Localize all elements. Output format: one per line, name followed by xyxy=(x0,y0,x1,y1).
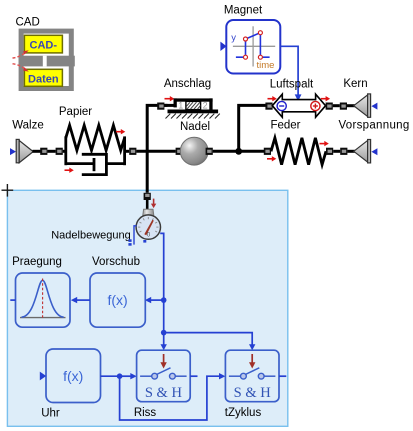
trigger arrow xyxy=(163,354,165,364)
curve points xyxy=(244,31,263,60)
connector Feder left port xyxy=(264,148,271,155)
red arrow Feder bottom left xyxy=(267,156,276,161)
bell curve xyxy=(22,280,64,317)
Uhr f(x) block xyxy=(40,349,101,403)
svg-text:y: y xyxy=(231,33,236,44)
sensor unconnected ports xyxy=(128,239,146,245)
damper branch xyxy=(66,162,94,165)
Walze fixed support xyxy=(10,139,41,162)
sensor dial xyxy=(136,215,160,239)
connector Vorspannung port xyxy=(340,148,347,155)
svg-text:f(x): f(x) xyxy=(107,292,127,308)
svg-text:Magnet: Magnet xyxy=(224,5,263,17)
red arrow at sensor rod xyxy=(151,199,156,209)
svg-text:Anschlag: Anschlag xyxy=(164,78,211,90)
svg-text:CAD-: CAD- xyxy=(30,40,58,52)
right bar xyxy=(123,136,126,165)
svg-text:Vorschub: Vorschub xyxy=(92,256,140,268)
sensor rod xyxy=(146,200,149,210)
wire junction under Riss to tZyklus input xyxy=(120,373,226,420)
wire junction to Riss top xyxy=(161,333,167,351)
connector Luftspalt left port xyxy=(265,103,272,110)
Kern fixed support xyxy=(347,94,377,117)
svg-text:S & H: S & H xyxy=(234,385,272,401)
wire junction to Riss input xyxy=(120,373,137,379)
wire junction to Vorschub xyxy=(145,297,164,303)
Magnet block U1 xyxy=(220,20,280,74)
junction at S&H branch xyxy=(161,330,167,336)
CAD red dashed arrow 1 xyxy=(13,50,29,58)
input port arrow xyxy=(40,372,46,381)
Nadel mass sphere xyxy=(180,137,208,165)
svg-text:2: 2 xyxy=(203,101,208,111)
connector Papier right port xyxy=(129,148,136,155)
svg-text:CAD: CAD xyxy=(16,17,40,29)
connector Anschlag port xyxy=(157,103,164,110)
wire Magnet output to Luftspalt xyxy=(280,46,301,101)
Papier spring-damper xyxy=(63,125,129,174)
svg-text:f(x): f(x) xyxy=(63,368,83,384)
svg-text:Feder: Feder xyxy=(270,120,300,132)
red arrow at Anschlag xyxy=(165,96,175,101)
signal curve xyxy=(236,33,270,58)
Vorspannung fixed support xyxy=(347,140,377,163)
spring branch xyxy=(66,125,125,150)
Riss output stub xyxy=(190,375,197,377)
tZyklus output stub xyxy=(279,375,286,377)
tZyklus sample&hold block xyxy=(225,350,279,402)
red arrow Feder top right xyxy=(320,141,329,146)
svg-text:Daten: Daten xyxy=(28,73,59,85)
wire Nadel to Feder through junction xyxy=(213,150,264,153)
needle xyxy=(144,220,154,235)
branch wire from main line up to Luftspalt xyxy=(239,105,266,151)
sensor left output wire xyxy=(134,226,137,245)
Praegung curve block xyxy=(10,273,70,327)
trigger arrow xyxy=(251,354,253,364)
connector Luftspalt right port xyxy=(326,103,333,110)
svg-text:Nadel: Nadel xyxy=(180,121,210,133)
red arrow Papier bottom left xyxy=(65,168,74,173)
svg-text:Kern: Kern xyxy=(343,78,367,90)
center dashed line xyxy=(42,279,44,318)
compound panel (light blue region) xyxy=(7,190,287,426)
Anschlag end-stop symbol xyxy=(164,98,219,118)
svg-text:S & H: S & H xyxy=(145,385,183,401)
wire Walze to Papier xyxy=(47,150,55,153)
left bar xyxy=(64,136,67,165)
plot axes xyxy=(252,26,254,66)
CAD icon frame xyxy=(19,29,75,91)
svg-text:Vorspannung: Vorspannung xyxy=(338,120,409,132)
wire Papier to Nadel xyxy=(136,150,175,153)
switch xyxy=(140,368,187,376)
wire junction down to lower branch xyxy=(163,300,165,333)
input port triangle xyxy=(220,42,226,51)
connector Feder right port xyxy=(326,148,333,155)
svg-text:time: time xyxy=(257,60,275,71)
output stub xyxy=(10,299,15,301)
svg-text:Papier: Papier xyxy=(59,106,92,118)
wire Uhr output to junction xyxy=(101,375,120,377)
CAD yellow box "Daten" xyxy=(24,69,62,86)
svg-text:Luftspalt: Luftspalt xyxy=(270,79,314,91)
junction below Uhr xyxy=(117,373,123,379)
plus pole xyxy=(311,101,320,110)
baseline xyxy=(20,317,66,319)
Vorschub f(x) block xyxy=(90,273,145,327)
CAD yellow box "CAD-" xyxy=(24,35,62,53)
ground hatch xyxy=(166,114,220,119)
minus pole xyxy=(277,101,286,110)
svg-text:1: 1 xyxy=(178,101,183,111)
connector Kern port xyxy=(340,103,347,110)
CAD red dashed arrow 2 xyxy=(13,64,29,72)
wire corner to Anschlag and down to sensor xyxy=(147,105,167,192)
wire Vorschub to Praegung xyxy=(71,297,90,303)
wire Feder to Vorspannung xyxy=(333,150,340,153)
junction node on main line xyxy=(235,148,242,155)
red arrow left xyxy=(268,98,274,100)
svg-text:Praegung: Praegung xyxy=(12,256,62,268)
wire junction to tZyklus top xyxy=(164,333,256,351)
wire Luftspalt to Kern xyxy=(333,104,340,107)
Luftspalt electromagnet gap element xyxy=(268,94,331,117)
svg-text:Walze: Walze xyxy=(12,120,44,132)
Feder spring xyxy=(271,138,326,165)
svg-text:tZyklus: tZyklus xyxy=(225,407,262,419)
sensor output wire down xyxy=(160,233,164,300)
connector Walze port xyxy=(40,148,47,155)
connector Papier left port xyxy=(56,148,63,155)
Riss sample&hold block xyxy=(137,350,191,402)
junction at Vorschub branch xyxy=(161,297,167,303)
connector sensor top port xyxy=(144,193,151,200)
connector Nadel left port xyxy=(176,148,183,155)
svg-text:Riss: Riss xyxy=(134,407,157,419)
hatched middle block xyxy=(186,101,201,109)
switch xyxy=(229,368,276,376)
svg-text:Uhr: Uhr xyxy=(41,408,60,420)
red arrow right xyxy=(321,98,327,100)
svg-text:Nadelbewegung: Nadelbewegung xyxy=(51,230,131,242)
connector Nadel right port xyxy=(206,148,213,155)
red arrow Papier top right xyxy=(116,129,125,134)
sensor cap xyxy=(143,209,154,215)
crosshair + at panel corner xyxy=(2,184,14,197)
